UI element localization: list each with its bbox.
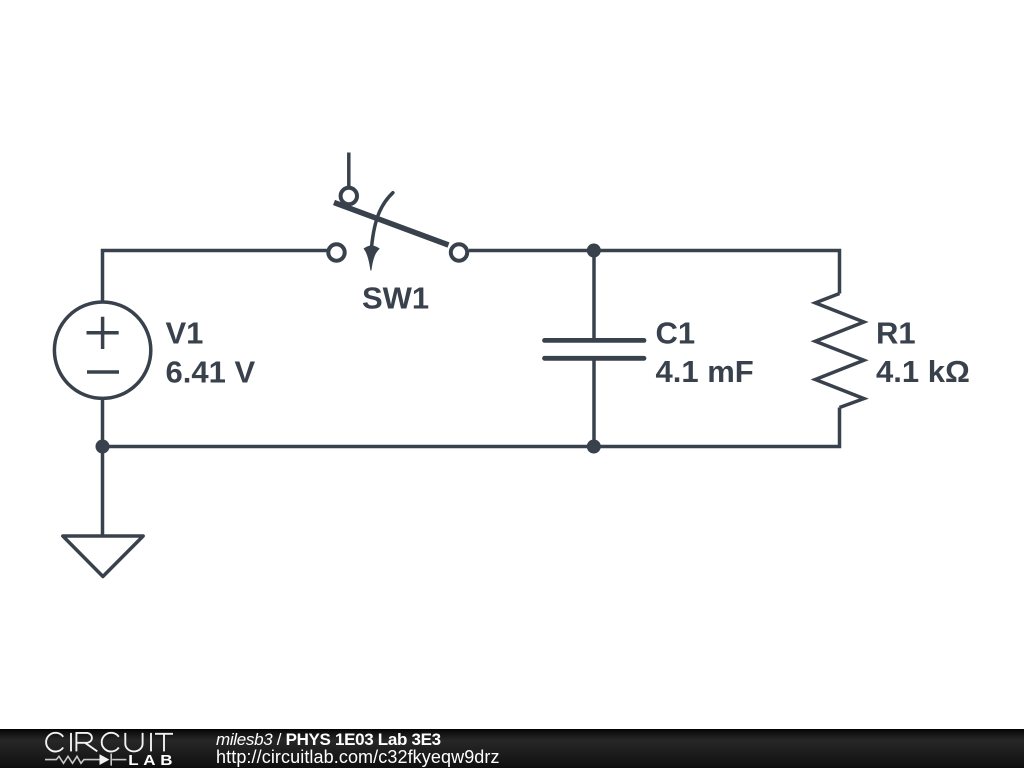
svg-text:4.1 mF: 4.1 mF	[656, 354, 754, 389]
svg-text:C1: C1	[656, 316, 696, 351]
svg-text:LAB: LAB	[128, 753, 177, 768]
svg-text:SW1: SW1	[362, 281, 429, 316]
svg-text:4.1 kΩ: 4.1 kΩ	[876, 354, 970, 389]
svg-text:6.41 V: 6.41 V	[166, 355, 256, 390]
svg-text:R1: R1	[876, 316, 916, 351]
svg-text:V1: V1	[166, 316, 204, 351]
